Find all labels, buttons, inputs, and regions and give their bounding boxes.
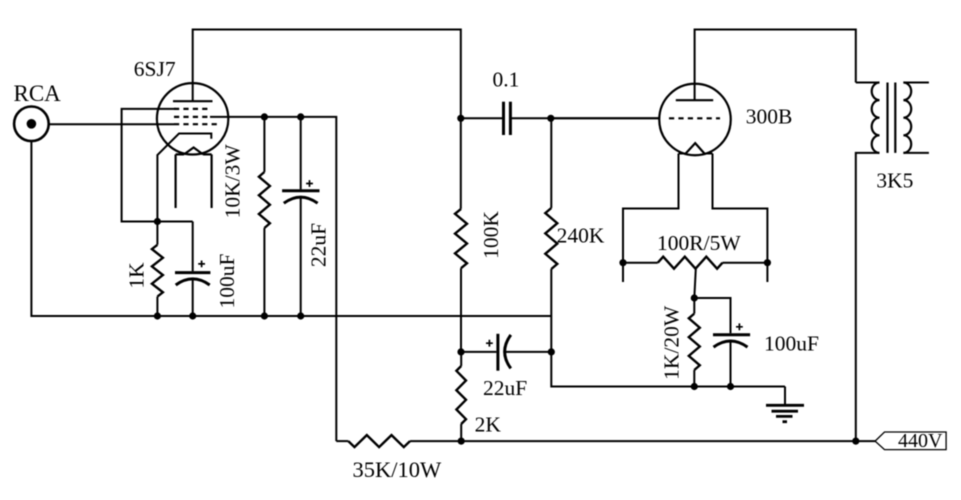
svg-text:0.1: 0.1 <box>493 68 520 92</box>
svg-text:3K5: 3K5 <box>876 168 913 192</box>
svg-text:6SJ7: 6SJ7 <box>134 57 176 81</box>
svg-text:1K/20W: 1K/20W <box>660 305 684 380</box>
svg-text:240K: 240K <box>557 224 605 248</box>
svg-text:2K: 2K <box>475 413 502 437</box>
svg-text:100R/5W: 100R/5W <box>657 231 741 255</box>
svg-text:10K/3W: 10K/3W <box>221 144 245 219</box>
svg-text:22uF: 22uF <box>307 223 331 267</box>
svg-text:35K/10W: 35K/10W <box>353 457 443 482</box>
svg-text:300B: 300B <box>746 104 793 128</box>
svg-text:100K: 100K <box>479 211 503 259</box>
svg-text:RCA: RCA <box>14 81 62 106</box>
svg-text:1K: 1K <box>125 262 149 289</box>
svg-text:22uF: 22uF <box>483 376 527 400</box>
svg-text:100uF: 100uF <box>764 331 819 355</box>
svg-text:100uF: 100uF <box>215 253 239 308</box>
svg-text:440V: 440V <box>898 430 943 452</box>
